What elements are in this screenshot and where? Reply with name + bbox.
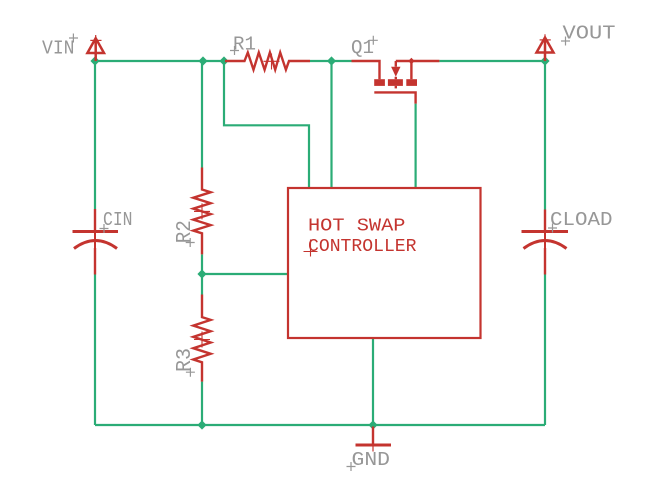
label R2 xyxy=(174,220,197,243)
wire left vertical VIN to CIN xyxy=(94,61,96,209)
svg-text:R2: R2 xyxy=(174,220,197,243)
wire top rail R2 tap to pin1 tap xyxy=(203,60,224,62)
anchor cross controller text xyxy=(304,240,318,257)
anchor cross CLOAD label xyxy=(548,224,557,233)
resistor R3 xyxy=(193,295,210,382)
wire node to R3 top xyxy=(201,274,203,295)
junction dot Q1 source-body xyxy=(408,58,414,64)
svg-text:R3: R3 xyxy=(174,348,197,372)
label R1 xyxy=(233,34,256,56)
svg-text:CLOAD: CLOAD xyxy=(550,209,613,231)
transistor Q1 drain pad xyxy=(374,79,385,86)
wire controller bottom to rail xyxy=(372,338,374,425)
svg-text:CIN: CIN xyxy=(103,209,133,231)
wire CIN to bottom rail xyxy=(94,275,96,426)
label VIN xyxy=(42,38,75,60)
wire gate to controller xyxy=(415,104,417,188)
anchor cross VIN xyxy=(69,34,78,43)
label CIN xyxy=(103,209,133,231)
transistor Q1 xyxy=(352,61,440,104)
op-amp U1 hot swap controller box xyxy=(288,188,481,338)
svg-text:HOT SWAP: HOT SWAP xyxy=(308,217,406,237)
wire pin2 vertical xyxy=(330,61,332,188)
wire pin1 jog xyxy=(224,61,309,188)
junction node pin1 tap xyxy=(219,56,228,65)
wire Q1 to VOUT corner xyxy=(439,60,545,62)
anchor cross R3 xyxy=(194,332,210,348)
capacitor CIN xyxy=(73,209,119,275)
label GND xyxy=(352,449,391,471)
label CLOAD xyxy=(550,209,613,231)
wire CLOAD to bottom rail xyxy=(544,275,546,426)
wire R2 bottom to node xyxy=(201,254,203,274)
junction node GND rail xyxy=(368,420,377,429)
wire R2 top xyxy=(201,61,203,168)
anchor cross VOUT xyxy=(561,37,570,46)
power flag VOUT xyxy=(537,34,554,61)
junction node VOUT xyxy=(540,56,549,65)
wire top rail VIN to R2 tap xyxy=(95,60,203,62)
transistor Q1 arrow xyxy=(391,67,400,77)
svg-text:R1: R1 xyxy=(233,34,256,56)
label HOT SWAP xyxy=(308,217,406,237)
transistor Q1 body pad xyxy=(388,79,403,86)
label Q1 xyxy=(351,37,374,59)
ground xyxy=(356,427,392,452)
svg-text:GND: GND xyxy=(352,449,391,471)
anchor cross CIN label xyxy=(100,224,109,233)
svg-text:CONTROLLER: CONTROLLER xyxy=(308,237,417,257)
junction node R2 R3 divider xyxy=(197,269,206,278)
label VOUT xyxy=(563,22,616,44)
anchor cross R1 xyxy=(264,54,280,70)
anchor cross R1 label xyxy=(230,46,239,55)
anchor cross Q1 label xyxy=(369,36,378,45)
label CONTROLLER xyxy=(308,237,417,257)
anchor cross GND label xyxy=(347,462,356,471)
junction node VIN xyxy=(90,56,99,65)
capacitor CLOAD xyxy=(522,210,569,275)
junction node pin2 tap xyxy=(327,56,336,65)
svg-text:VOUT: VOUT xyxy=(563,22,616,44)
wire node to controller left pin xyxy=(202,273,288,275)
anchor cross R2 xyxy=(194,203,210,219)
wire right vertical VOUT to CLOAD xyxy=(544,61,546,210)
anchor cross R3 label xyxy=(186,368,195,377)
resistor R2 xyxy=(193,168,210,255)
wire bottom rail xyxy=(95,424,545,426)
resistor R1 xyxy=(225,53,310,70)
junction node R2 tap xyxy=(198,56,207,65)
wire R1 right to Q1 xyxy=(310,60,352,62)
anchor cross R2 label xyxy=(186,238,195,247)
svg-text:VIN: VIN xyxy=(42,38,75,60)
junction node R3 rail xyxy=(197,420,206,429)
transistor Q1 source pad xyxy=(406,79,417,86)
power flag VIN xyxy=(87,35,104,61)
wire R3 bottom to rail xyxy=(201,382,203,425)
label R3 xyxy=(174,348,197,372)
